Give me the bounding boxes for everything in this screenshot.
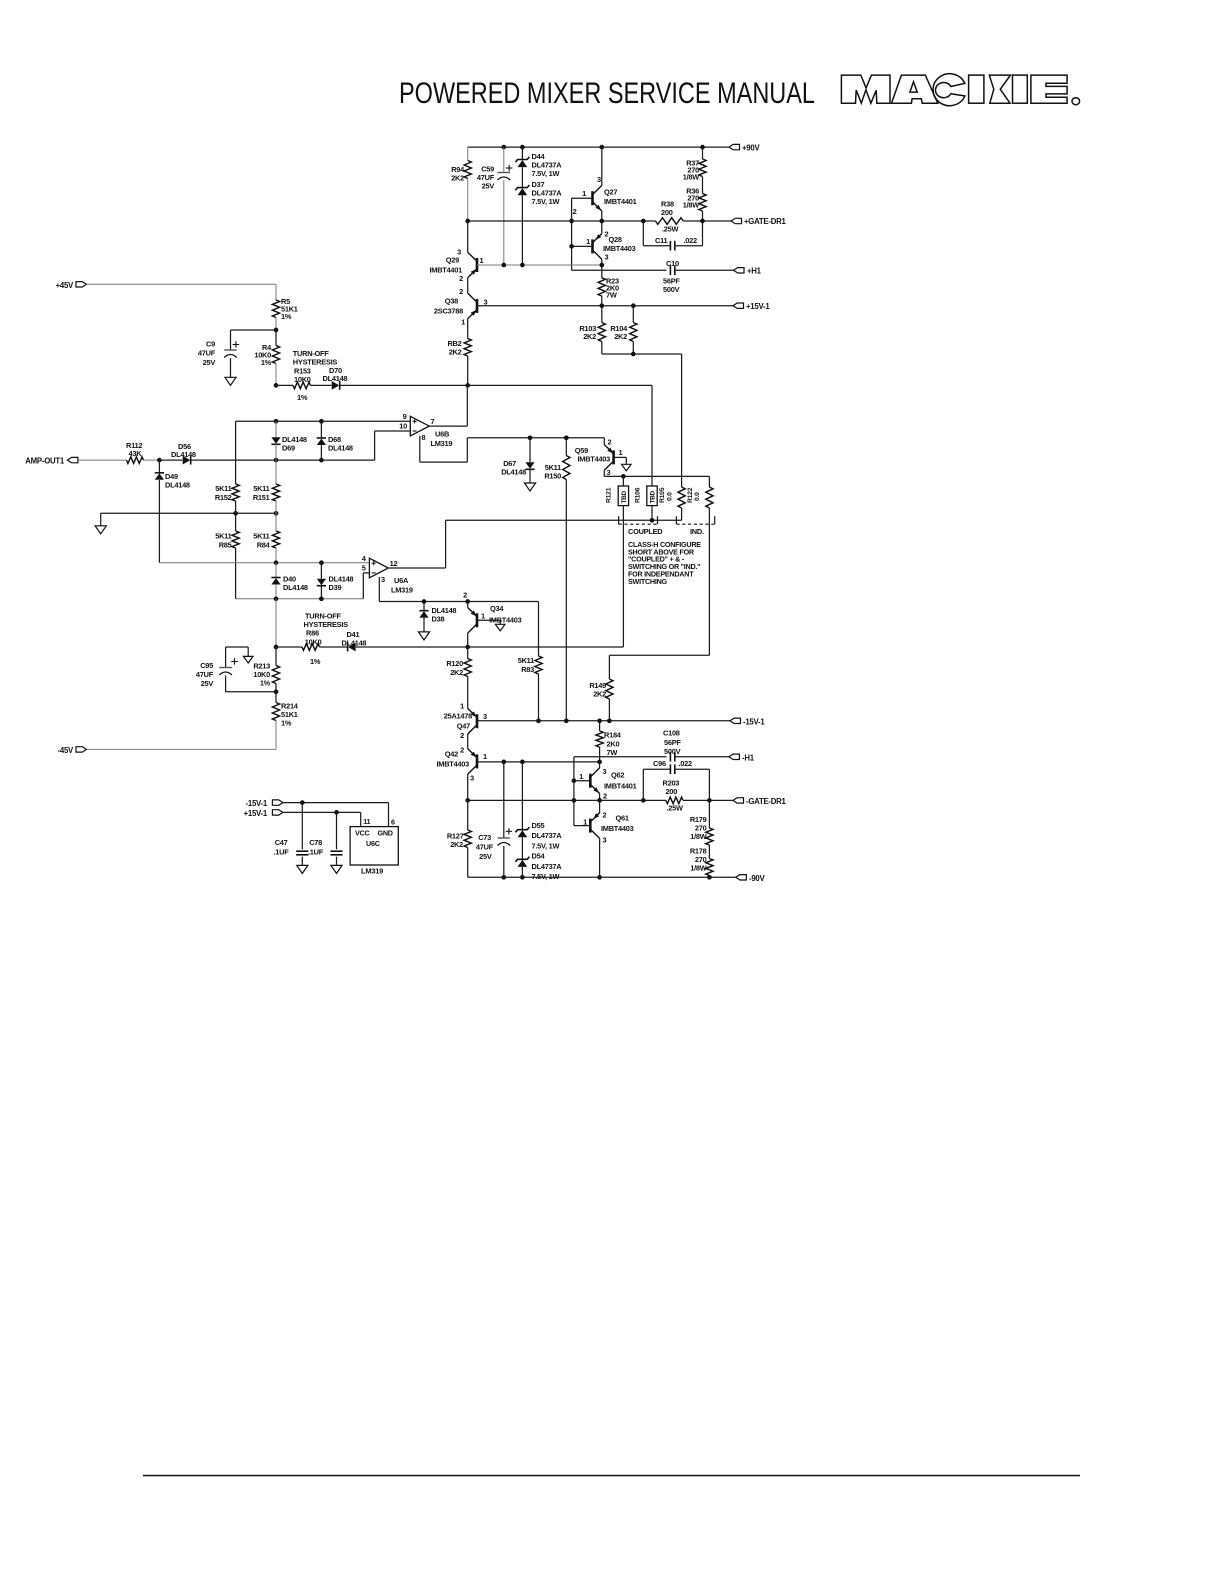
svg-text:IMBT4403: IMBT4403: [436, 760, 469, 769]
svg-text:500V: 500V: [663, 285, 680, 294]
svg-text:D38: D38: [432, 615, 445, 624]
svg-text:1%: 1%: [281, 719, 292, 728]
svg-text:R84: R84: [257, 541, 271, 550]
resistor R94: [467, 147, 469, 160]
wire U6B output: [429, 425, 467, 427]
svg-text:DL4148: DL4148: [501, 468, 526, 477]
svg-text:25V: 25V: [201, 679, 214, 688]
op-amp U6A: [369, 558, 388, 578]
resistor R151: [275, 460, 277, 484]
svg-text:DL4737A: DL4737A: [532, 831, 563, 840]
svg-text:.022: .022: [684, 236, 698, 245]
zener diode D37: [515, 185, 529, 190]
svg-text:TBD: TBD: [650, 490, 657, 503]
resistor R203: [666, 797, 683, 804]
svg-text:-H1: -H1: [742, 753, 755, 762]
svg-text:.1UF: .1UF: [308, 848, 324, 857]
svg-text:1%: 1%: [261, 358, 272, 367]
svg-text:R106: R106: [634, 487, 641, 503]
resistor R4: [275, 330, 277, 346]
svg-text:IMBT4401: IMBT4401: [604, 782, 637, 791]
svg-text:7W: 7W: [606, 291, 617, 300]
transistor Q38: [476, 299, 479, 313]
svg-text:IND.: IND.: [690, 527, 704, 536]
svg-text:C10: C10: [666, 259, 679, 268]
svg-text:Q28: Q28: [609, 235, 622, 244]
svg-text:7W: 7W: [607, 748, 618, 757]
zener diode D55: [521, 762, 523, 830]
node D40/D39 bottom line: [236, 598, 364, 600]
svg-text:6: 6: [391, 818, 395, 827]
wire -H1 link: [573, 757, 575, 826]
svg-text:Q47: Q47: [457, 722, 470, 731]
terminal +H1: [734, 268, 745, 273]
svg-text:3: 3: [603, 836, 607, 845]
capacitor C73: [503, 762, 505, 838]
svg-text:LM319: LM319: [391, 586, 413, 595]
resistor R85: [235, 513, 237, 531]
wire amp-out: [78, 459, 127, 461]
svg-text:-15V-1: -15V-1: [743, 717, 765, 726]
svg-text:9: 9: [403, 412, 407, 421]
svg-text:11: 11: [363, 817, 370, 826]
svg-text:IMBT4401: IMBT4401: [604, 197, 637, 206]
svg-text:2K2: 2K2: [449, 348, 462, 357]
svg-text:LM319: LM319: [361, 867, 383, 876]
svg-text:47UF: 47UF: [196, 670, 214, 679]
jumper dashed independent: [676, 523, 714, 525]
svg-text:TBD: TBD: [621, 490, 628, 503]
resistor R83: [538, 602, 540, 657]
svg-text:1: 1: [460, 702, 464, 711]
resistor R149: [608, 655, 610, 679]
svg-text:D55: D55: [532, 821, 545, 830]
svg-text:COUPLED: COUPLED: [628, 527, 663, 536]
terminal AMP-OUT1: [67, 457, 78, 462]
svg-text:Q38: Q38: [445, 297, 458, 306]
transistor Q59: [603, 438, 605, 445]
transistor Q34: [467, 602, 469, 608]
svg-text:Q42: Q42: [445, 750, 458, 759]
resistor R213: [275, 647, 277, 666]
svg-text:DL4148: DL4148: [328, 444, 353, 453]
wire U6A output: [388, 567, 445, 569]
svg-text:25V: 25V: [203, 358, 216, 367]
node D40/D39 top line: [159, 562, 369, 564]
svg-text:SWITCHING: SWITCHING: [628, 577, 668, 586]
svg-text:2K2: 2K2: [450, 668, 463, 677]
comparator U6C power pins: [350, 827, 398, 865]
zener diode D44: [520, 145, 525, 150]
svg-text:5K11: 5K11: [253, 532, 269, 541]
svg-text:DL4148: DL4148: [323, 374, 348, 383]
node -GATE-DR1 line: [468, 799, 666, 801]
svg-text:1/8W: 1/8W: [683, 201, 700, 210]
resistor R184: [599, 721, 601, 731]
node Q42 base row: [477, 761, 600, 763]
svg-text:-90V: -90V: [749, 874, 766, 883]
node Q29 base line: [477, 264, 602, 266]
svg-text:25A1478: 25A1478: [444, 712, 472, 721]
transistor Q42: [476, 754, 479, 768]
svg-text:LM319: LM319: [431, 439, 453, 448]
svg-text:R150: R150: [544, 472, 561, 481]
svg-text:25V: 25V: [479, 852, 492, 861]
node resistor ladder mid: [101, 512, 276, 514]
ground at Q34 base: [495, 624, 505, 631]
svg-text:DL4148: DL4148: [283, 583, 308, 592]
ground below D38: [418, 632, 429, 640]
svg-text:D54: D54: [532, 852, 546, 861]
svg-text:+GATE-DR1: +GATE-DR1: [744, 217, 786, 226]
svg-text:5K11: 5K11: [518, 656, 534, 665]
diode D69: [275, 421, 277, 437]
transistor Q29: [476, 258, 479, 272]
svg-text:.25W: .25W: [667, 804, 684, 813]
svg-text:+15V-1: +15V-1: [746, 302, 770, 311]
node -15V-1 line: [477, 720, 730, 722]
svg-text:C73: C73: [478, 833, 491, 842]
node +H1 line: [572, 269, 667, 271]
svg-text:1: 1: [579, 772, 583, 781]
svg-text:D69: D69: [282, 444, 295, 453]
diode D68: [320, 421, 322, 438]
svg-text:HYSTERESIS: HYSTERESIS: [293, 358, 338, 367]
node +GATE-DR1 line: [468, 220, 656, 222]
svg-text:1: 1: [461, 318, 465, 327]
svg-text:+45V: +45V: [56, 281, 74, 290]
terminal -15V-1 left: [272, 800, 283, 805]
node D67/R150 line: [467, 437, 604, 439]
svg-text:+H1: +H1: [747, 267, 762, 276]
wire D70 line to R106 column: [468, 384, 652, 386]
resistor R86: [302, 644, 320, 651]
wire Q59 pin3: [603, 470, 605, 476]
node class-H row: [604, 475, 709, 477]
terminal -15V-1 right: [730, 718, 741, 723]
capacitor C78: [336, 812, 338, 849]
resistor R106 (TBD): [647, 486, 657, 506]
node RB2/U6B junction: [465, 383, 470, 388]
wire +45V feed: [87, 283, 277, 285]
svg-text:C95: C95: [200, 661, 213, 670]
ground below C9: [225, 377, 236, 385]
svg-text:D39: D39: [329, 583, 342, 592]
node R153 line: [274, 383, 279, 388]
svg-text:Q62: Q62: [611, 771, 624, 780]
svg-text:GND: GND: [378, 829, 393, 838]
svg-text:DL4148: DL4148: [171, 450, 196, 459]
svg-text:+90V: +90V: [742, 144, 760, 153]
ground below D67: [524, 483, 535, 491]
transistor Q62: [589, 774, 592, 788]
transistor Q27: [599, 145, 604, 150]
capacitor C11: [642, 221, 644, 246]
svg-text:2K2: 2K2: [450, 840, 463, 849]
svg-text:POWERED MIXER SERVICE MANUAL: POWERED MIXER SERVICE MANUAL: [399, 77, 815, 110]
transistor Q28: [591, 239, 594, 253]
svg-text:-GATE-DR1: -GATE-DR1: [746, 797, 787, 806]
wire U6A pin3: [378, 577, 380, 602]
terminal -90V: [736, 875, 747, 880]
terminal +15V-1 left: [272, 810, 283, 815]
ground below C47: [297, 865, 308, 873]
svg-text:R86: R86: [306, 629, 319, 638]
svg-text:2: 2: [603, 811, 607, 820]
resistor RB2: [464, 339, 471, 357]
svg-text:.25W: .25W: [662, 225, 679, 234]
svg-text:3: 3: [381, 575, 385, 584]
resistor R84: [275, 513, 277, 531]
svg-text:3: 3: [607, 468, 611, 477]
terminal +90V: [729, 144, 740, 149]
resistor R37: [700, 145, 705, 150]
diode D70: [339, 381, 341, 390]
svg-text:Q61: Q61: [616, 814, 629, 823]
svg-text:1%: 1%: [260, 679, 271, 688]
svg-text:C47: C47: [275, 838, 288, 847]
resistor R112: [127, 457, 144, 464]
svg-text:7.5V, 1W: 7.5V, 1W: [532, 197, 560, 206]
svg-text:56PF: 56PF: [664, 738, 681, 747]
svg-text:DL4737A: DL4737A: [532, 862, 563, 871]
svg-text:IMBT4403: IMBT4403: [577, 455, 610, 464]
svg-text:43K: 43K: [129, 449, 143, 458]
capacitor C59: [501, 145, 506, 150]
svg-text:C108: C108: [663, 729, 680, 738]
svg-text:3: 3: [597, 175, 601, 184]
wire Q47-Q42 link: [467, 734, 469, 749]
svg-text:1: 1: [583, 818, 587, 827]
svg-text:2K2: 2K2: [593, 690, 606, 699]
svg-text:2: 2: [608, 438, 612, 447]
svg-text:5K11: 5K11: [215, 484, 231, 493]
footer rule: [143, 1475, 1080, 1477]
resistor R5: [272, 300, 279, 318]
svg-text:R105: R105: [659, 487, 666, 503]
wire +15V-1 to U6C vcc: [283, 811, 361, 813]
capacitor C95: [226, 646, 249, 648]
svg-text:47UF: 47UF: [198, 349, 216, 358]
svg-text:25V: 25V: [482, 181, 495, 190]
wire Q34 pin3: [467, 633, 469, 647]
svg-text:3: 3: [483, 712, 487, 721]
svg-text:1/8W: 1/8W: [683, 173, 700, 182]
svg-text:7.5V, 1W: 7.5V, 1W: [532, 169, 560, 178]
resistor R104: [632, 306, 634, 323]
svg-text:1: 1: [619, 448, 623, 457]
wire -45V feed: [87, 748, 277, 750]
svg-text:R184: R184: [604, 731, 622, 740]
svg-text:0.0: 0.0: [694, 492, 701, 501]
svg-text:C78: C78: [309, 838, 322, 847]
svg-text:VCC: VCC: [355, 829, 369, 838]
svg-text:3: 3: [470, 774, 474, 783]
diode D40: [275, 563, 277, 578]
terminal -H1: [729, 754, 740, 759]
svg-text:1/8W: 1/8W: [690, 864, 707, 873]
svg-text:C96: C96: [653, 759, 666, 768]
node R86/D41 line: [274, 645, 279, 650]
capacitor C9: [231, 329, 277, 331]
svg-text:2: 2: [460, 746, 464, 755]
svg-text:1: 1: [480, 256, 484, 265]
svg-text:1%: 1%: [297, 393, 308, 402]
svg-text:1: 1: [586, 237, 590, 246]
wire hysteresis feedback upper: [236, 420, 411, 422]
resistor R103: [601, 306, 603, 323]
svg-text:U6C: U6C: [366, 839, 380, 848]
svg-text:200: 200: [666, 787, 678, 796]
svg-text:10: 10: [399, 422, 407, 431]
svg-text:IMBT4403: IMBT4403: [489, 615, 522, 624]
svg-text:R85: R85: [219, 541, 232, 550]
terminal +GATE-DR1: [731, 218, 742, 223]
svg-text:0.0: 0.0: [666, 492, 673, 501]
resistor R36: [702, 177, 704, 194]
ground below C78: [331, 865, 342, 873]
svg-text:1: 1: [481, 612, 485, 621]
svg-text:R122: R122: [687, 487, 694, 503]
wire R103/R104 bottoms to R105 column: [602, 353, 682, 355]
diode D38: [423, 602, 425, 611]
svg-text:+15V-1: +15V-1: [244, 809, 268, 818]
svg-text:3: 3: [603, 767, 607, 776]
svg-text:2K2: 2K2: [583, 332, 596, 341]
ground at Q59 emitter: [622, 464, 632, 471]
node +90V rail: [468, 146, 729, 148]
svg-text:8: 8: [422, 433, 426, 442]
svg-text:200: 200: [661, 208, 673, 217]
svg-text:2: 2: [463, 591, 467, 600]
node D49 junction: [157, 458, 162, 463]
svg-text:R83: R83: [521, 665, 534, 674]
svg-text:12: 12: [390, 559, 398, 568]
svg-text:2SC3788: 2SC3788: [434, 307, 463, 316]
svg-text:U6B: U6B: [435, 430, 449, 439]
resistor R122 0.0: [708, 476, 710, 487]
transistor Q61: [589, 819, 592, 833]
svg-text:Q29: Q29: [446, 256, 459, 265]
diode D49: [158, 460, 160, 473]
wire main column to hysteresis node: [275, 599, 277, 647]
wire Q27/Q28 base link: [571, 198, 573, 270]
svg-text:IMBT4401: IMBT4401: [429, 266, 462, 275]
resistor R214: [272, 703, 279, 721]
svg-text:1: 1: [483, 752, 487, 761]
resistor R150: [565, 438, 567, 456]
resistor R120: [467, 647, 469, 659]
svg-text:5K11: 5K11: [215, 532, 231, 541]
svg-text:5: 5: [362, 564, 366, 573]
svg-text:R151: R151: [253, 493, 270, 502]
ground at ladder: [100, 513, 102, 526]
terminal +15V-1: [733, 303, 744, 308]
resistor R153: [293, 382, 311, 389]
svg-text:Q27: Q27: [604, 188, 617, 197]
wire U6A inverting input: [363, 572, 369, 574]
resistor R152: [232, 484, 239, 501]
svg-text:-45V: -45V: [58, 746, 75, 755]
terminal -45V: [76, 747, 87, 752]
svg-text:HYSTERESIS: HYSTERESIS: [304, 620, 349, 629]
transistor Q47: [476, 714, 479, 728]
resistor R23: [598, 278, 605, 296]
Mackie logo: [841, 75, 890, 103]
diode D39: [320, 563, 322, 579]
svg-text:2: 2: [573, 207, 577, 216]
svg-text:7: 7: [431, 417, 435, 426]
svg-text:C11: C11: [655, 236, 668, 245]
svg-text:R121: R121: [605, 487, 612, 503]
svg-text:1: 1: [582, 189, 586, 198]
svg-text:-15V-1: -15V-1: [246, 799, 268, 808]
capacitor C47: [301, 803, 303, 850]
resistor R179: [708, 800, 710, 828]
svg-text:2: 2: [603, 792, 607, 801]
diode D67: [529, 438, 531, 462]
svg-text:1/8W: 1/8W: [690, 832, 707, 841]
wire U6B pin 8 strobe: [419, 436, 421, 462]
svg-text:5K11: 5K11: [253, 484, 269, 493]
zener diode D54: [515, 857, 529, 862]
diode D56: [159, 459, 182, 461]
capacitor C96: [642, 769, 644, 800]
ground at C95: [247, 647, 249, 656]
svg-text:IMBT4403: IMBT4403: [601, 824, 634, 833]
terminal -GATE-DR1: [733, 798, 744, 803]
svg-text:2: 2: [459, 274, 463, 283]
svg-text:.1UF: .1UF: [273, 848, 289, 857]
svg-text:.022: .022: [679, 759, 693, 768]
svg-text:2K2: 2K2: [614, 332, 627, 341]
node -90V line: [468, 876, 736, 878]
wire to comparator: [191, 459, 375, 461]
svg-text:7.5V, 1W: 7.5V, 1W: [532, 841, 560, 850]
svg-text:1%: 1%: [310, 657, 321, 666]
svg-text:3: 3: [605, 253, 609, 262]
resistor R178: [708, 845, 710, 859]
diode D41: [347, 643, 349, 652]
node R5/R4 junction: [274, 328, 279, 333]
capacitor C108: [669, 752, 671, 762]
svg-text:DL4148: DL4148: [165, 481, 190, 490]
resistor R105 0.0: [678, 487, 685, 508]
node +15V-1 line: [477, 305, 733, 307]
svg-text:1%: 1%: [281, 312, 292, 321]
svg-text:Q34: Q34: [490, 604, 504, 613]
wire U6B inverting input: [375, 430, 411, 432]
svg-text:2: 2: [459, 287, 463, 296]
svg-text:4: 4: [362, 554, 367, 563]
resistor R127: [467, 800, 469, 830]
svg-text:2: 2: [460, 731, 464, 740]
svg-text:R152: R152: [215, 493, 232, 502]
capacitor C10: [669, 266, 671, 276]
svg-text:500V: 500V: [664, 747, 681, 756]
wire -15V-1 to U6C gnd: [283, 802, 389, 804]
wire U6A output to R106: [446, 519, 682, 521]
jumper dashed coupled: [619, 523, 658, 525]
svg-text:U6A: U6A: [394, 576, 409, 585]
wire Q42 emitter: [467, 774, 469, 800]
svg-text:R120: R120: [446, 659, 463, 668]
terminal +45V: [76, 282, 87, 287]
svg-text:47UF: 47UF: [476, 843, 494, 852]
op-amp U6B: [410, 416, 429, 436]
svg-text:AMP-OUT1: AMP-OUT1: [25, 457, 65, 466]
resistor R38: [656, 218, 684, 225]
